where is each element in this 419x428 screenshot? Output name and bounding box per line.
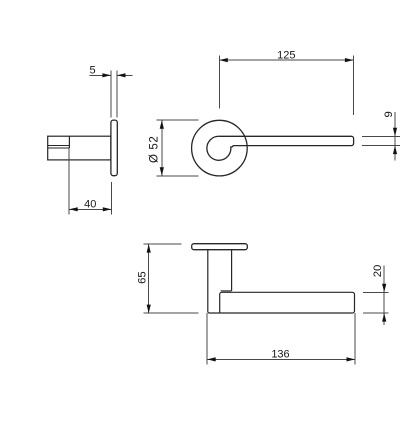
rose plate (edge-on, horizontal) bbox=[192, 244, 248, 250]
dimension 5: dimension line segments bbox=[90, 74, 133, 76]
svg-text:40: 40 bbox=[84, 198, 96, 210]
rose plate (edge-on) bbox=[111, 120, 117, 176]
dimension 40: dimension line bbox=[69, 208, 111, 210]
dimension 20: arrows bbox=[382, 284, 386, 322]
neck + lever hook outline bbox=[207, 136, 354, 160]
svg-text:20: 20 bbox=[372, 265, 384, 278]
dimension 65: extension lines bbox=[144, 244, 199, 313]
svg-text:9: 9 bbox=[383, 111, 395, 117]
dimension 136: dimension line bbox=[207, 358, 355, 360]
dimension 9: dimension line bbox=[394, 112, 396, 161]
dimension 5: extension lines bbox=[111, 71, 117, 118]
dimension 20: extension lines bbox=[363, 292, 389, 313]
dimension D52: dimension line bbox=[161, 120, 163, 176]
svg-text:Ø 52: Ø 52 bbox=[149, 136, 161, 163]
dimension 9: arrows bbox=[393, 128, 397, 154]
dimension D52: arrows bbox=[160, 120, 164, 176]
neck left edge bbox=[208, 250, 220, 313]
dimension 40: arrows bbox=[69, 207, 111, 211]
dimension 40: extension lines bbox=[69, 149, 111, 215]
dimension 20: dimension line bbox=[383, 266, 385, 326]
dimension 5: arrows bbox=[102, 73, 125, 77]
svg-text:5: 5 bbox=[90, 64, 96, 76]
neck outer rectangle bbox=[48, 136, 111, 160]
dimension 9: extension lines bbox=[362, 136, 400, 145]
dimension 65: dimension line bbox=[148, 244, 150, 313]
dimension 65: arrows bbox=[147, 244, 151, 313]
neck right edge bbox=[231, 250, 233, 291]
dimension 136: extension lines bbox=[207, 313, 355, 364]
svg-text:136: 136 bbox=[271, 348, 289, 360]
rose circle bbox=[192, 120, 248, 176]
lever grip outline bbox=[220, 292, 355, 313]
dimension 136: arrows bbox=[207, 357, 355, 361]
dimension 125: arrows bbox=[219, 58, 353, 62]
lever end cap inner vertical line bbox=[68, 136, 70, 148]
lever end cap double horizontal lines bbox=[48, 146, 70, 149]
svg-text:65: 65 bbox=[136, 271, 148, 284]
dimension 125: dimension line bbox=[219, 59, 353, 61]
neck-to-lever junction line bbox=[221, 290, 232, 292]
dimension 125: extension lines bbox=[219, 56, 353, 115]
dimension D52: extension lines bbox=[157, 120, 199, 176]
svg-text:125: 125 bbox=[277, 50, 295, 62]
